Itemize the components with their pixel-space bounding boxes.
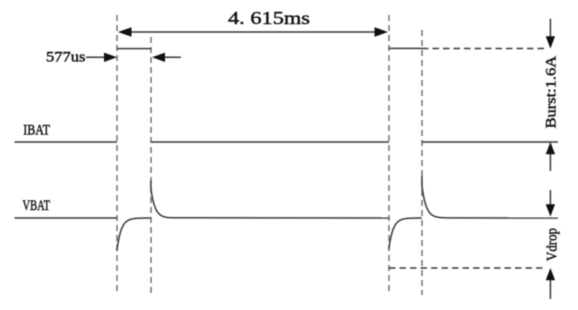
svg-text:4. 615ms: 4. 615ms	[228, 8, 310, 28]
svg-text:IBAT: IBAT	[23, 122, 50, 138]
svg-text:577us: 577us	[46, 50, 86, 66]
svg-text:VBAT: VBAT	[23, 198, 51, 214]
svg-text:Vdrop: Vdrop	[545, 228, 561, 261]
svg-text:Burst:1.6A: Burst:1.6A	[544, 56, 560, 129]
